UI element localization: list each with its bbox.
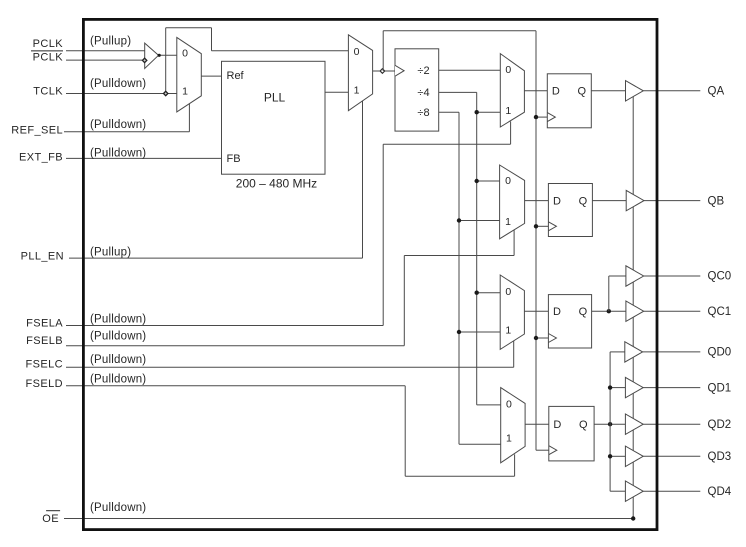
svg-text:Q: Q [578,86,587,98]
svg-text:TCLK: TCLK [33,86,63,98]
svg-text:÷4: ÷4 [417,87,429,99]
svg-text:D: D [552,86,560,98]
svg-text:FSELC: FSELC [26,359,63,371]
svg-text:OE: OE [42,513,59,525]
svg-text:0: 0 [354,46,360,58]
svg-text:0: 0 [506,399,512,411]
svg-text:QD2: QD2 [708,419,732,431]
svg-text:(Pulldown): (Pulldown) [90,148,146,160]
svg-text:PLL: PLL [264,90,286,104]
svg-text:QD3: QD3 [708,451,732,463]
svg-text:(Pulldown): (Pulldown) [90,78,146,90]
svg-text:FSELD: FSELD [26,378,63,390]
svg-text:(Pulldown): (Pulldown) [90,374,146,386]
svg-text:1: 1 [505,216,511,228]
svg-text:EXT_FB: EXT_FB [19,151,63,163]
svg-text:PLL_EN: PLL_EN [21,251,64,263]
svg-text:÷8: ÷8 [417,107,429,119]
svg-text:REF_SEL: REF_SEL [11,125,63,137]
svg-text:1: 1 [506,433,512,445]
svg-text:D: D [553,195,561,207]
svg-text:FSELA: FSELA [26,318,63,330]
svg-text:(Pulldown): (Pulldown) [90,331,146,343]
svg-text:(Pullup): (Pullup) [90,246,131,258]
svg-text:Ref: Ref [227,70,245,82]
svg-text:200 – 480 MHz: 200 – 480 MHz [236,177,317,191]
svg-text:1: 1 [182,85,188,97]
svg-text:QA: QA [708,86,725,98]
svg-text:D: D [553,419,561,431]
svg-text:Q: Q [579,195,588,207]
svg-text:(Pulldown): (Pulldown) [90,502,146,514]
svg-text:QB: QB [708,195,725,207]
svg-text:(Pulldown): (Pulldown) [90,119,146,131]
svg-text:0: 0 [182,48,188,60]
svg-text:D: D [553,306,561,318]
svg-text:QC0: QC0 [708,271,732,283]
svg-text:PCLK: PCLK [33,38,64,50]
svg-text:FSELB: FSELB [26,335,63,347]
svg-text:1: 1 [505,324,511,336]
svg-text:QC1: QC1 [708,306,732,318]
svg-text:0: 0 [505,175,511,187]
svg-text:0: 0 [505,286,511,298]
svg-text:1: 1 [354,85,360,97]
svg-text:Q: Q [579,419,588,431]
svg-text:0: 0 [505,64,511,76]
svg-text:FB: FB [227,153,241,165]
svg-text:Q: Q [579,306,588,318]
svg-text:(Pullup): (Pullup) [90,36,131,48]
svg-text:QD0: QD0 [708,347,732,359]
svg-text:÷2: ÷2 [417,65,429,77]
svg-text:(Pulldown): (Pulldown) [90,354,146,366]
svg-text:(Pulldown): (Pulldown) [90,313,146,325]
svg-text:QD4: QD4 [708,486,732,498]
svg-text:PCLK: PCLK [33,51,64,63]
svg-text:QD1: QD1 [708,382,732,394]
svg-text:1: 1 [505,105,511,117]
